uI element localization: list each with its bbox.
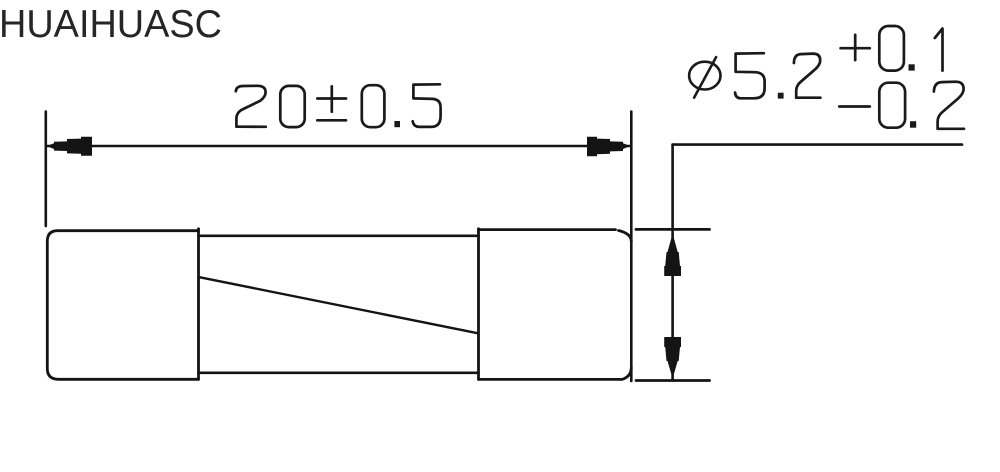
fuse glass tube bottom edge bbox=[199, 371, 479, 374]
down arrowhead bbox=[664, 337, 681, 379]
top extension tick bbox=[636, 228, 710, 231]
fuse left end cap bbox=[47, 231, 198, 380]
tolerance text -0.2 : digit 0 bbox=[879, 83, 905, 128]
diameter text : digit 5 bbox=[735, 53, 765, 98]
tolerance text -0.2 : digit 2 bbox=[934, 82, 964, 129]
dimension line 20±0.5 bbox=[46, 145, 631, 148]
diameter text : phi symbol bbox=[689, 57, 720, 98]
left extension line bbox=[44, 112, 47, 227]
dimension text 20±0.5 : decimal point bbox=[394, 121, 400, 127]
diameter dimension vertical line bbox=[671, 145, 674, 381]
fuse left cap right edge bbox=[197, 229, 200, 379]
dimension text 20±0.5 : digit 2 bbox=[236, 86, 266, 127]
dimension text 20±0.5 : digit 0 bbox=[280, 86, 304, 127]
tolerance text : plus sign bbox=[841, 35, 870, 60]
tolerance text +0.1 : digit 0 bbox=[879, 26, 904, 71]
tolerance text +0.1 : decimal point bbox=[909, 64, 915, 70]
tolerance text -0.2 : decimal point bbox=[910, 121, 916, 128]
bottom extension tick bbox=[636, 379, 710, 382]
svg-text:HUAIHUASC: HUAIHUASC bbox=[0, 3, 222, 46]
diameter text : decimal point bbox=[778, 93, 784, 99]
fuse right end cap bbox=[479, 230, 632, 380]
dimension text 20±0.5 : plus-minus bbox=[317, 86, 346, 120]
right arrowhead bbox=[587, 137, 630, 156]
tolerance text : minus sign bbox=[839, 105, 870, 108]
up arrowhead bbox=[664, 234, 681, 277]
left arrowhead bbox=[47, 137, 93, 156]
fuse element wire (diagonal) bbox=[200, 277, 478, 333]
tolerance text +0.1 : digit 1 bbox=[935, 29, 943, 71]
dimension text 20±0.5 : digit 5 bbox=[413, 84, 441, 127]
fuse glass tube top edge bbox=[199, 235, 479, 238]
right extension line (also right cap outer edge) bbox=[630, 112, 633, 382]
diameter leader horizontal line bbox=[673, 143, 962, 146]
diameter text : digit 2 bbox=[794, 54, 821, 98]
fuse right cap left edge bbox=[477, 229, 480, 379]
dimension text 20±0.5 : digit 0 bbox=[362, 85, 385, 127]
